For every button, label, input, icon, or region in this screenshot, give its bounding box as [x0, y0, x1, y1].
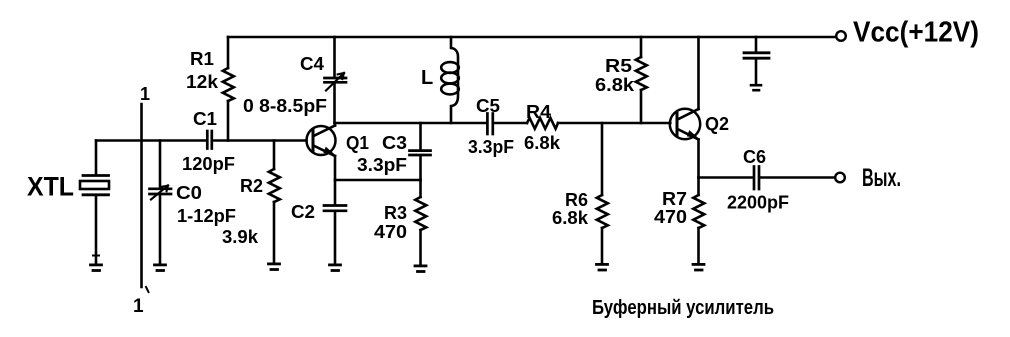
resistor R1: [223, 37, 234, 141]
svg-text:Q2: Q2: [705, 113, 729, 134]
svg-text:C1: C1: [193, 108, 217, 129]
capacitor C1: [207, 131, 212, 149]
svg-text:6.8k: 6.8k: [524, 132, 561, 153]
svg-text:120pF: 120pF: [182, 153, 235, 174]
ground (C2): [330, 265, 341, 271]
resistor R3: [415, 180, 426, 265]
svg-text:Q1: Q1: [346, 132, 369, 153]
svg-text:470: 470: [654, 206, 687, 227]
ground (R3): [415, 266, 426, 272]
bypass capacitor at Vcc: [744, 37, 769, 84]
svg-text:3.3pF: 3.3pF: [357, 154, 407, 175]
svg-text:C4: C4: [300, 53, 325, 74]
svg-text:1-12pF: 1-12pF: [177, 205, 236, 226]
wire C5 to R4: [494, 122, 527, 125]
inductor L: [441, 37, 459, 123]
svg-text:470: 470: [374, 221, 407, 242]
svg-text:Vcc(+12V): Vcc(+12V): [853, 17, 979, 49]
node line 1-1 (shield marker): [140, 104, 143, 287]
ground (R7): [693, 264, 704, 270]
svg-text:R4: R4: [526, 101, 552, 122]
crystal XTL: [80, 141, 109, 264]
resistor R7: [693, 178, 704, 264]
prime tick for node 1': [146, 287, 149, 292]
resistor R4: [527, 118, 558, 129]
resistor R2: [269, 141, 280, 263]
svg-text:C3: C3: [382, 132, 407, 153]
wire main base line (right of C1): [213, 139, 307, 142]
svg-text:XTL: XTL: [27, 172, 74, 202]
resistor R5: [636, 37, 647, 123]
svg-text:3.9k: 3.9k: [222, 226, 259, 247]
wire Q2 collector to rail: [697, 37, 700, 109]
svg-text:C6: C6: [743, 146, 766, 167]
svg-text:C2: C2: [291, 201, 315, 222]
svg-text:R5: R5: [605, 55, 632, 76]
svg-text:Вых.: Вых.: [862, 164, 901, 192]
wire R4 to Q2 base: [558, 122, 670, 125]
wire collector node (mid line): [335, 122, 487, 125]
svg-text:12k: 12k: [186, 71, 219, 92]
ground (R2): [269, 264, 280, 270]
wire Q2 emitter down: [697, 140, 700, 178]
output terminal circle: [835, 173, 845, 183]
svg-text:6.8k: 6.8k: [595, 74, 635, 95]
capacitor C3: [410, 123, 431, 180]
svg-text:Буферный усилитель: Буферный усилитель: [592, 297, 774, 319]
svg-text:3.3pF: 3.3pF: [468, 136, 514, 157]
svg-text:R2: R2: [240, 175, 263, 196]
ground (bypass cap): [751, 85, 761, 90]
svg-text:L: L: [421, 67, 433, 89]
capacitor C6: [754, 167, 759, 190]
svg-text:1: 1: [133, 296, 144, 317]
ground (crystal): [91, 256, 102, 271]
capacitor C4 (trimmer): [325, 37, 347, 123]
svg-text:2200pF: 2200pF: [727, 192, 789, 213]
capacitor C2: [324, 180, 346, 264]
wire Q1 emitter down: [334, 156, 337, 180]
ground (C0): [155, 265, 166, 271]
wire emitter node Q1: [335, 179, 421, 182]
wire emitter to C6: [699, 176, 753, 179]
svg-text:R1: R1: [190, 48, 214, 69]
wire main base line (left of C1): [96, 139, 206, 142]
svg-text:1: 1: [140, 84, 150, 104]
ground (R6): [597, 264, 608, 270]
svg-text:0 8-8.5pF: 0 8-8.5pF: [243, 95, 327, 116]
wire top supply rail: [228, 36, 836, 39]
resistor R6: [597, 123, 608, 263]
capacitor C0 (trimmer): [150, 141, 172, 264]
transistor Q1: [307, 126, 336, 157]
svg-text:6.8k: 6.8k: [552, 207, 589, 228]
svg-text:C5: C5: [476, 95, 500, 116]
wire Q1 collector up: [334, 123, 337, 126]
svg-text:C0: C0: [176, 182, 202, 203]
svg-text:R3: R3: [384, 202, 407, 223]
wire C6 to output: [760, 176, 835, 179]
transistor Q2: [670, 109, 700, 140]
capacitor C5: [487, 114, 492, 135]
Vcc terminal circle: [836, 31, 846, 41]
